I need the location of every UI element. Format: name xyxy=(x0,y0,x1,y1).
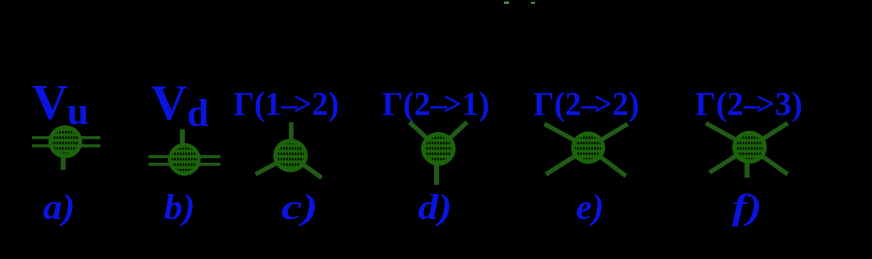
svg-text:Γ(1–>2): Γ(1–>2) xyxy=(234,86,340,123)
leg down-left (f) xyxy=(710,147,750,172)
svg-text:Γ(2–>1): Γ(2–>1) xyxy=(382,86,490,123)
blob d xyxy=(421,132,456,166)
svg-text:V: V xyxy=(32,74,68,130)
leg up-right (d) xyxy=(438,122,467,149)
blob a xyxy=(48,125,82,158)
leg down (a) xyxy=(61,142,66,170)
svg-text:Γ(2–>2): Γ(2–>2) xyxy=(533,86,639,123)
label V_d xyxy=(151,74,209,135)
leg up-left (d) xyxy=(410,122,439,149)
leg up-right (f) xyxy=(750,123,788,147)
leg down-middle (f) xyxy=(745,147,750,177)
leg down (d) xyxy=(434,149,439,185)
svg-text:V: V xyxy=(151,74,187,130)
leg down-right (f) xyxy=(750,147,788,174)
double line left (a) xyxy=(32,136,65,139)
svg-text:a): a) xyxy=(43,187,75,227)
leg up (b) xyxy=(180,129,185,159)
leg up (c) xyxy=(289,122,294,155)
double line right (b) xyxy=(184,155,220,158)
double line left (b) xyxy=(149,155,185,158)
leg down-right (e) xyxy=(588,148,626,176)
stray green mark 2 (top edge) xyxy=(531,2,535,4)
svg-text:c): c) xyxy=(281,187,318,227)
svg-text:d: d xyxy=(187,92,209,135)
blob f xyxy=(732,131,767,164)
svg-text:e): e) xyxy=(576,187,604,227)
blob c xyxy=(273,139,308,173)
leg up-left (e) xyxy=(544,124,588,148)
stray green mark 1 (top edge) xyxy=(504,2,509,4)
leg down-left (c) xyxy=(256,156,291,175)
leg up-right (e) xyxy=(588,124,628,148)
svg-text:f): f) xyxy=(732,187,762,227)
leg down-left (e) xyxy=(546,148,588,175)
double line right (a) xyxy=(65,136,100,139)
leg up-left (f) xyxy=(706,123,750,147)
svg-text:Γ(2–>3): Γ(2–>3) xyxy=(695,86,803,123)
svg-text:b): b) xyxy=(164,187,195,227)
blob e xyxy=(571,132,605,164)
label V_u xyxy=(32,74,89,134)
blob b xyxy=(168,143,201,176)
leg down-right (c) xyxy=(291,156,322,178)
svg-text:d): d) xyxy=(418,187,452,227)
